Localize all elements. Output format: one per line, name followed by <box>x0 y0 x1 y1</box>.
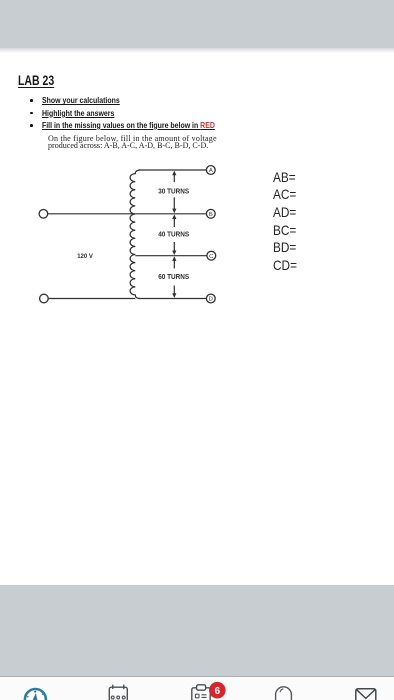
dimension arrow up (B-C) shaft <box>173 219 175 228</box>
top status/app bar (empty gray) <box>0 0 394 48</box>
svg-text:C: C <box>209 254 214 260</box>
bullet list <box>30 95 31 97</box>
wire B-line right <box>135 213 206 215</box>
arrowhead up at A <box>172 171 176 176</box>
bottom toolbar <box>0 676 394 700</box>
wire B-line left <box>48 213 136 215</box>
terminal D <box>206 294 215 303</box>
terminal C <box>207 251 216 260</box>
transformer figure <box>0 0 394 340</box>
document heading LAB 23 <box>18 72 54 88</box>
arrowhead up at C <box>172 256 176 261</box>
svg-text:120 V: 120 V <box>77 253 93 260</box>
svg-text:30 TURNS: 30 TURNS <box>158 189 189 196</box>
svg-text:60 TURNS: 60 TURNS <box>158 274 189 281</box>
terminal A <box>206 166 215 175</box>
svg-text:D: D <box>209 297 213 303</box>
dimension arrow up (C-D) shaft <box>173 260 175 268</box>
terminal B <box>206 209 215 218</box>
dimension arrow down (A-B) shaft <box>173 197 175 209</box>
dimension arrow up (A-B) shaft <box>173 174 175 182</box>
dimension arrow down (C-D) shaft <box>173 286 175 295</box>
svg-text:A: A <box>209 168 213 174</box>
mail icon <box>356 689 376 700</box>
answer labels <box>273 169 297 275</box>
terminal left top <box>39 210 48 219</box>
arrowhead down at C <box>172 251 176 256</box>
contact/person icon <box>276 687 292 700</box>
arrowhead down at B <box>172 209 176 214</box>
arrowhead down at D <box>172 293 176 298</box>
wire D-line left <box>48 298 135 300</box>
autotransformer winding T1 <box>130 170 140 299</box>
wire A-line <box>139 169 207 171</box>
terminal left bottom <box>40 294 49 303</box>
dimension arrow down (B-C) shaft <box>173 242 175 252</box>
arrowhead up at B <box>172 214 176 219</box>
svg-text:6: 6 <box>214 686 220 697</box>
bottom gray band <box>0 585 394 676</box>
clock icon <box>25 689 46 700</box>
wire D-line right <box>139 298 207 300</box>
badge 6 <box>209 682 226 699</box>
serif instruction paragraph <box>48 135 217 150</box>
calendar icon <box>109 685 127 700</box>
svg-text:B: B <box>209 212 213 218</box>
wire C-line <box>135 255 207 257</box>
clipboard icon <box>192 685 210 700</box>
toolbar icons <box>0 676 394 700</box>
shadow under top bar <box>0 48 394 53</box>
svg-text:40 TURNS: 40 TURNS <box>158 231 189 238</box>
